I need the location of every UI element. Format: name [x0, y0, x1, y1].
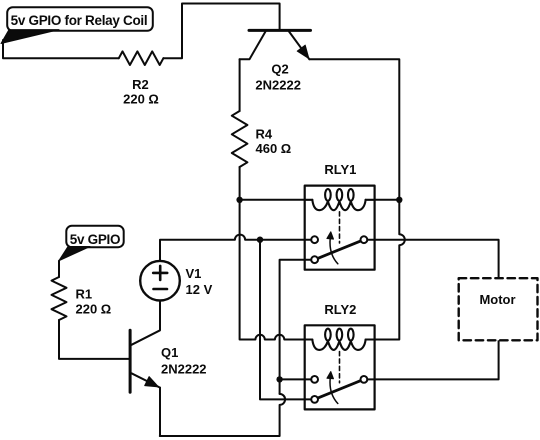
- svg-text:RLY2: RLY2: [324, 302, 356, 317]
- node: junction dot R4/coils: [236, 197, 242, 203]
- wire RLY1 coil right to rail: [375, 199, 400, 201]
- switch blade: [318, 241, 361, 259]
- relay RLY1: [305, 186, 375, 270]
- wire from callout to R2: [3, 40, 119, 58]
- wire branch to RLY2 common: [280, 378, 312, 380]
- wire vertical hop over RLY2 lower wire, down to bottom rail: [160, 394, 285, 436]
- actuation arrow: [330, 239, 338, 264]
- wire RLY1 lower contact to left vertical: [280, 260, 312, 394]
- svg-text:460 Ω: 460 Ω: [256, 141, 292, 156]
- wire Q1 emitter to bottom rail: [159, 388, 161, 436]
- switch contacts: [311, 236, 318, 243]
- wire R2 to Q2 base: [163, 4, 279, 59]
- svg-text:R2: R2: [132, 77, 149, 92]
- callout label "5v GPIO for Relay Coil": [1, 7, 153, 43]
- wire R4 to node: [239, 167, 241, 200]
- svg-text:5v GPIO: 5v GPIO: [70, 232, 120, 247]
- node: junction dot to RLY2 branch: [257, 237, 263, 243]
- wire Q2 collector to R4: [239, 59, 241, 111]
- svg-text:Motor: Motor: [479, 292, 515, 307]
- wire V1 minus to Q1 collector: [132, 301, 161, 345]
- coil: [312, 200, 365, 210]
- svg-text:12 V: 12 V: [186, 282, 213, 297]
- actuation dashed line: [339, 212, 341, 243]
- callout label "5v GPIO": [59, 226, 124, 261]
- svg-text:R4: R4: [256, 127, 273, 142]
- svg-text:220 Ω: 220 Ω: [123, 92, 159, 107]
- svg-text:V1: V1: [186, 266, 202, 281]
- node: junction dot right rail: [396, 197, 402, 203]
- resistor R4: [232, 111, 248, 167]
- wire V1 plus to RLY1 common, hop over R4 branch: [160, 235, 311, 261]
- wire node to RLY1 coil: [240, 199, 305, 201]
- motor (dashed box): [459, 278, 538, 340]
- svg-text:RLY1: RLY1: [324, 162, 356, 177]
- wire RLY1 NO contact to motor top: [367, 240, 498, 279]
- svg-text:2N2222: 2N2222: [255, 78, 301, 93]
- node: junction dot RLY2 common branch: [276, 376, 282, 382]
- wire motor bottom to RLY2 NO contact: [367, 340, 498, 379]
- svg-text:220 Ω: 220 Ω: [76, 302, 112, 317]
- svg-text:R1: R1: [76, 286, 93, 301]
- svg-text:2N2222: 2N2222: [161, 362, 207, 377]
- transistor Q1 2N2222: [130, 330, 160, 392]
- svg-text:5v GPIO for Relay Coil: 5v GPIO for Relay Coil: [11, 13, 148, 28]
- wire dot to RLY2 lower contact: [260, 240, 311, 400]
- wire callout to R1: [58, 261, 60, 277]
- transistor Q2 2N2222: [240, 30, 311, 59]
- relay RLY2 (reuse): [305, 325, 375, 409]
- resistor R2: [119, 51, 164, 65]
- voltage source V1 12V: [140, 261, 180, 301]
- wire Q2 emitter to right rail: [309, 59, 399, 200]
- svg-text:Q2: Q2: [271, 61, 288, 76]
- resistor R1: [52, 277, 67, 320]
- svg-text:Q1: Q1: [161, 345, 178, 360]
- wire right rail down to RLY2 coil right, hop over switch wire: [375, 200, 405, 340]
- wire R1 to Q1 base: [59, 320, 130, 359]
- wire node down to RLY2 coil with hops over verticals: [240, 200, 305, 340]
